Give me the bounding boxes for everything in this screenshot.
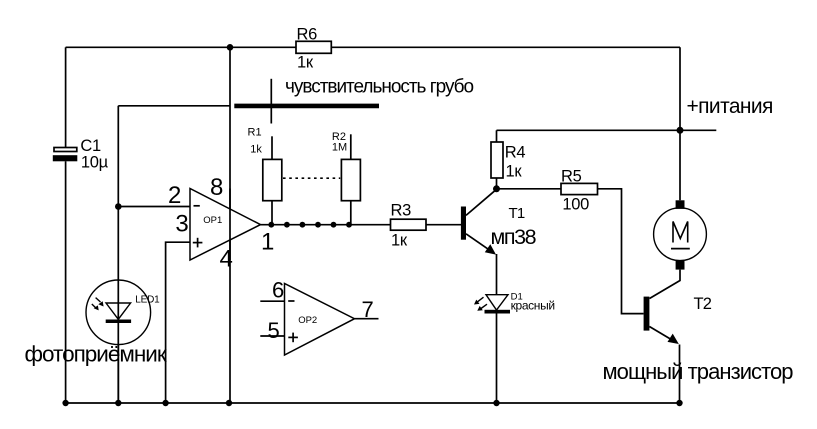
svg-text:R6: R6: [297, 25, 318, 43]
capacitor C1 bottom plate: [53, 155, 78, 161]
svg-text:R4: R4: [505, 144, 526, 162]
op-amp OP1 plus sign: [193, 242, 203, 244]
resistor R4 leads: [496, 130, 498, 142]
junction dot T1 collector / R4: [493, 185, 500, 192]
wire collector node to R5: [497, 188, 562, 190]
resistor R4: [491, 142, 503, 178]
junction dot pin2 branch: [115, 203, 122, 210]
op-amp OP1 minus sign: [194, 205, 200, 207]
resistor R1: [263, 159, 282, 200]
LED D1 cathode bar: [485, 310, 511, 314]
svg-text:1к: 1к: [391, 231, 408, 249]
wire T2 emitter to bottom rail: [679, 345, 681, 404]
LED1 incoming arrow 1: [96, 298, 101, 302]
svg-text:LED1: LED1: [135, 295, 160, 306]
svg-text:7: 7: [362, 297, 374, 322]
photoreceiver LED1 circle: [86, 280, 151, 345]
LED D1 triangle: [486, 295, 508, 310]
wire OP2 pin5 stub: [260, 335, 284, 337]
wire left rail lower segment: [65, 161, 67, 403]
svg-text:мп38: мп38: [491, 225, 537, 249]
wire op-amp pin2 input: [118, 206, 190, 208]
junction dot top rail x230: [227, 44, 234, 51]
svg-text:R1: R1: [248, 126, 262, 138]
wire feedback horizontal y106: [118, 105, 230, 107]
LED1 triangle: [106, 303, 131, 319]
wire right vertical from top rail down to supply node: [679, 47, 681, 200]
transistor T1 emitter: [466, 234, 494, 253]
svg-text:R5: R5: [561, 168, 582, 186]
LED D1 emission arrow 1: [478, 297, 484, 302]
svg-text:5: 5: [268, 318, 280, 343]
motor bottom terminal: [676, 261, 685, 270]
svg-text:10µ: 10µ: [81, 153, 109, 171]
transistor T2 base bar: [644, 297, 650, 331]
svg-text:фотоприёмник: фотоприёмник: [25, 341, 167, 366]
junction dot +supply: [677, 127, 684, 134]
wire D1 cathode to bottom rail: [496, 314, 498, 404]
LED1 incoming arrow 2: [92, 304, 96, 308]
wire left rail upper segment: [65, 47, 67, 147]
motor M letter: [673, 222, 688, 243]
LED1 cathode bar: [106, 320, 131, 324]
svg-text:1к: 1к: [297, 53, 314, 71]
svg-text:чувствительность грубо: чувствительность грубо: [285, 76, 473, 97]
svg-text:3: 3: [175, 211, 188, 238]
wire op-amp pin3 stub and ground drop: [166, 242, 190, 403]
wire through LED1: [117, 280, 119, 403]
transistor T2 emitter: [649, 327, 676, 343]
svg-text:1M: 1M: [332, 142, 347, 154]
svg-text:6: 6: [272, 277, 284, 302]
wire top rail: [66, 46, 680, 48]
op-amp OP1 triangle: [190, 189, 261, 261]
svg-text:8: 8: [210, 174, 223, 201]
svg-text:R3: R3: [391, 202, 412, 220]
op-amp OP2 triangle: [285, 284, 355, 356]
junction dots bottom rail: [62, 400, 68, 406]
svg-text:мощный транзистор: мощный транзистор: [603, 359, 794, 384]
transistor T1 base bar: [461, 207, 466, 240]
resistor R5: [561, 183, 598, 194]
svg-text:100: 100: [562, 196, 589, 214]
svg-text:OP1: OP1: [203, 215, 222, 226]
transistor T2 emitter arrowhead: [668, 334, 679, 344]
svg-text:OP2: OP2: [298, 315, 317, 326]
wire OP2 pin6 stub: [260, 300, 284, 302]
svg-text:2: 2: [168, 182, 181, 209]
svg-text:4: 4: [220, 245, 233, 272]
transistor T1 collector: [466, 189, 497, 215]
svg-text:T1: T1: [509, 205, 525, 222]
svg-text:красный: красный: [511, 299, 555, 313]
op-amp OP2 plus sign: [288, 336, 298, 338]
resistor R2: [341, 159, 360, 200]
motor top terminal: [676, 200, 685, 209]
wire R5 to T2 base: [598, 189, 644, 314]
transistor T1 emitter arrowhead: [485, 244, 496, 254]
wire +supply horizontal: [497, 129, 717, 131]
op-amp OP2 minus sign: [288, 300, 294, 302]
wire R3 to T1 base: [426, 224, 461, 226]
svg-text:+питания: +питания: [687, 95, 773, 118]
wire OP2 output stub: [355, 318, 379, 320]
wire power vertical crossing OP1: [229, 189, 231, 261]
dotted gang link R1-R2: [283, 177, 340, 179]
svg-text:1к: 1к: [506, 162, 523, 180]
capacitor C1 top plate: [54, 148, 77, 152]
wire OP1 output to R3: [261, 224, 391, 226]
svg-text:1: 1: [261, 229, 274, 256]
potentiometer track bar: [234, 104, 379, 109]
svg-text:1k: 1k: [250, 144, 262, 156]
wire motor to T2 collector: [650, 270, 681, 299]
junction dots OP1 output row: [268, 222, 274, 228]
wire T1 emitter to D1: [496, 254, 498, 295]
LED D1 emission arrow 2: [481, 304, 487, 308]
svg-text:C1: C1: [80, 137, 101, 155]
wire photodiode branch x118: [117, 106, 119, 403]
resistor R6: [296, 41, 331, 53]
motor M underline: [671, 248, 690, 250]
resistor R3: [391, 219, 427, 230]
motor M circle: [654, 208, 707, 261]
wire power vertical x230: [229, 47, 231, 403]
svg-text:T2: T2: [694, 295, 712, 313]
potentiometer wiper line: [270, 79, 272, 124]
wire bottom rail: [66, 402, 680, 404]
resistor R2 leads: [350, 134, 352, 159]
resistor R1 leads: [271, 136, 273, 159]
